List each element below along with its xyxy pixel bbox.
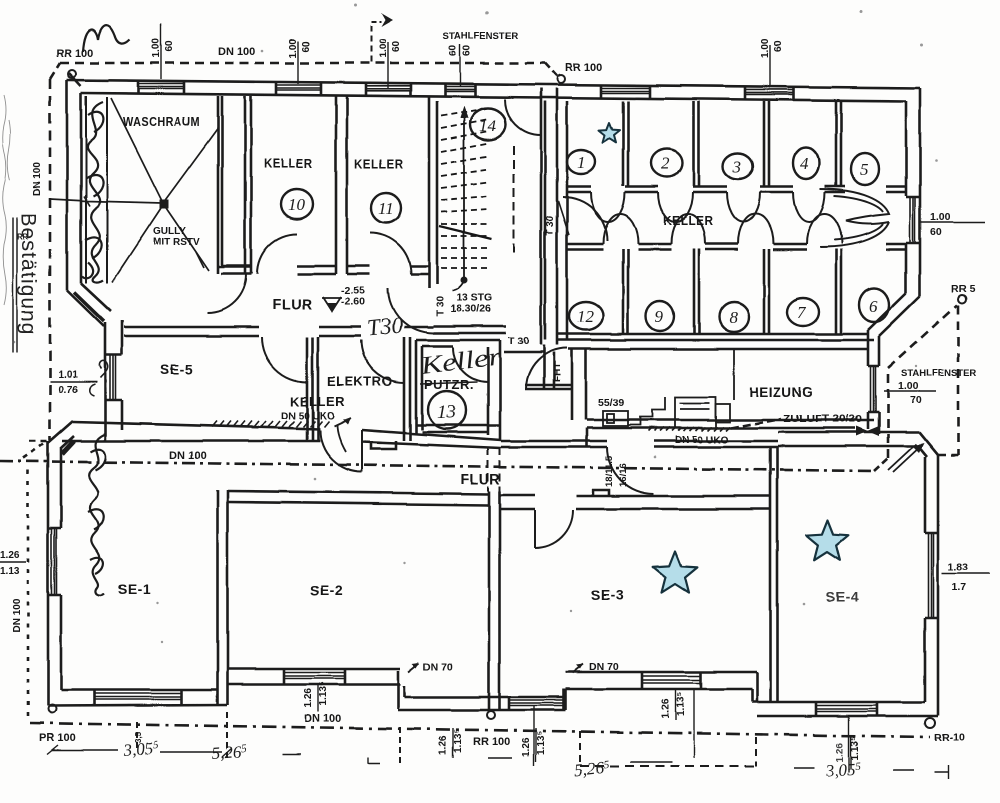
svg-text:RR 100: RR 100	[565, 62, 602, 74]
svg-text:60: 60	[391, 40, 402, 52]
svg-text:KELLER: KELLER	[354, 157, 403, 171]
svg-text:SE-5: SE-5	[160, 361, 193, 377]
svg-text:T 30: T 30	[508, 335, 529, 347]
svg-text:1.13⁵: 1.13⁵	[676, 692, 687, 716]
svg-text:KELLER: KELLER	[663, 214, 713, 228]
svg-text:1.13⁵: 1.13⁵	[318, 682, 329, 706]
svg-text:KELLER: KELLER	[290, 394, 345, 409]
svg-text:DN 100: DN 100	[304, 713, 341, 725]
svg-text:T30: T30	[366, 312, 405, 341]
svg-text:0.76: 0.76	[58, 385, 78, 396]
svg-text:Bestätigung: Bestätigung	[17, 213, 40, 335]
svg-text:STAHLFENSTER: STAHLFENSTER	[901, 368, 976, 379]
svg-text:SE-4: SE-4	[826, 589, 859, 605]
svg-text:FLUR: FLUR	[460, 472, 501, 488]
svg-text:STAHLFENSTER: STAHLFENSTER	[443, 31, 518, 42]
svg-text:ELEKTRO: ELEKTRO	[327, 374, 393, 389]
svg-text:13: 13	[437, 402, 456, 423]
svg-text:HEIZUNG: HEIZUNG	[749, 385, 813, 400]
svg-text:-2.60: -2.60	[341, 296, 365, 308]
svg-text:DN 100: DN 100	[12, 599, 23, 633]
svg-text:1.26: 1.26	[0, 550, 20, 561]
svg-text:1.00: 1.00	[930, 211, 951, 223]
svg-text:12: 12	[577, 307, 595, 326]
svg-text:DN 100: DN 100	[169, 450, 206, 462]
svg-text:RR 5: RR 5	[951, 283, 975, 295]
svg-text:60: 60	[462, 44, 473, 56]
svg-text:1.13⁵: 1.13⁵	[850, 736, 861, 760]
svg-text:1: 1	[577, 153, 586, 172]
svg-text:9: 9	[655, 307, 664, 326]
svg-text:10: 10	[288, 195, 306, 214]
svg-text:PR 100: PR 100	[39, 732, 76, 744]
svg-text:1.00: 1.00	[378, 38, 389, 58]
svg-text:SE-3: SE-3	[591, 587, 624, 603]
svg-text:RR 100: RR 100	[56, 48, 93, 60]
svg-text:11: 11	[378, 199, 394, 218]
svg-text:MIT RSTV: MIT RSTV	[153, 237, 200, 248]
svg-text:2: 2	[661, 154, 670, 173]
svg-text:DN 100: DN 100	[32, 162, 43, 196]
svg-text:SE-2: SE-2	[310, 582, 343, 598]
svg-text:DN 70: DN 70	[589, 661, 619, 673]
svg-text:1.00: 1.00	[760, 38, 771, 58]
svg-text:T 30: T 30	[435, 296, 446, 316]
svg-text:70: 70	[910, 394, 922, 406]
svg-text:60: 60	[164, 40, 175, 52]
svg-text:60: 60	[930, 226, 942, 238]
svg-text:1.00: 1.00	[898, 380, 919, 392]
svg-text:RR 100: RR 100	[473, 736, 510, 748]
svg-text:1.13: 1.13	[0, 566, 20, 577]
svg-text:1.83: 1.83	[948, 561, 969, 573]
svg-text:1.26: 1.26	[835, 742, 846, 762]
svg-text:DN 50 UKO: DN 50 UKO	[675, 435, 729, 446]
svg-text:16/16: 16/16	[618, 463, 629, 487]
svg-text:60: 60	[773, 40, 784, 52]
svg-text:DN 100: DN 100	[218, 46, 255, 58]
svg-text:4: 4	[800, 154, 809, 173]
svg-text:14: 14	[479, 116, 497, 135]
svg-text:60: 60	[448, 44, 459, 56]
svg-text:8: 8	[729, 308, 738, 327]
svg-text:T 30: T 30	[545, 216, 556, 236]
svg-text:18.30/26: 18.30/26	[450, 303, 491, 315]
svg-text:FLUR: FLUR	[272, 297, 313, 313]
svg-text:5: 5	[860, 160, 869, 179]
svg-text:DN 50 UKO: DN 50 UKO	[281, 411, 335, 422]
svg-text:KELLER: KELLER	[264, 157, 313, 171]
svg-text:SE-1: SE-1	[118, 581, 151, 597]
svg-text:1.7: 1.7	[952, 581, 967, 593]
svg-text:WASCHRAUM: WASCHRAUM	[123, 115, 200, 129]
svg-text:RR-10: RR-10	[934, 732, 965, 744]
svg-text:3: 3	[732, 157, 742, 176]
svg-text:FHT: FHT	[552, 363, 563, 382]
svg-text:ZULUFT 20/20: ZULUFT 20/20	[783, 413, 862, 425]
svg-text:1.13⁵: 1.13⁵	[536, 731, 547, 755]
svg-text:1.13⁵: 1.13⁵	[453, 729, 464, 753]
svg-text:1.26: 1.26	[303, 688, 314, 708]
svg-text:1.00: 1.00	[288, 38, 299, 58]
svg-text:PUTZR.: PUTZR.	[424, 377, 474, 392]
svg-text:1.26: 1.26	[438, 735, 449, 755]
svg-text:1.00: 1.00	[151, 38, 162, 58]
svg-text:18/11.5: 18/11.5	[604, 455, 615, 487]
svg-text:1.26: 1.26	[521, 737, 532, 757]
svg-text:60: 60	[301, 40, 312, 52]
svg-text:1.26: 1.26	[661, 698, 672, 718]
svg-text:55/39: 55/39	[598, 397, 624, 409]
svg-text:6: 6	[869, 297, 878, 316]
svg-text:1.01: 1.01	[58, 370, 78, 381]
svg-text:DN 70: DN 70	[423, 661, 453, 673]
svg-text:GULLY: GULLY	[153, 226, 186, 237]
